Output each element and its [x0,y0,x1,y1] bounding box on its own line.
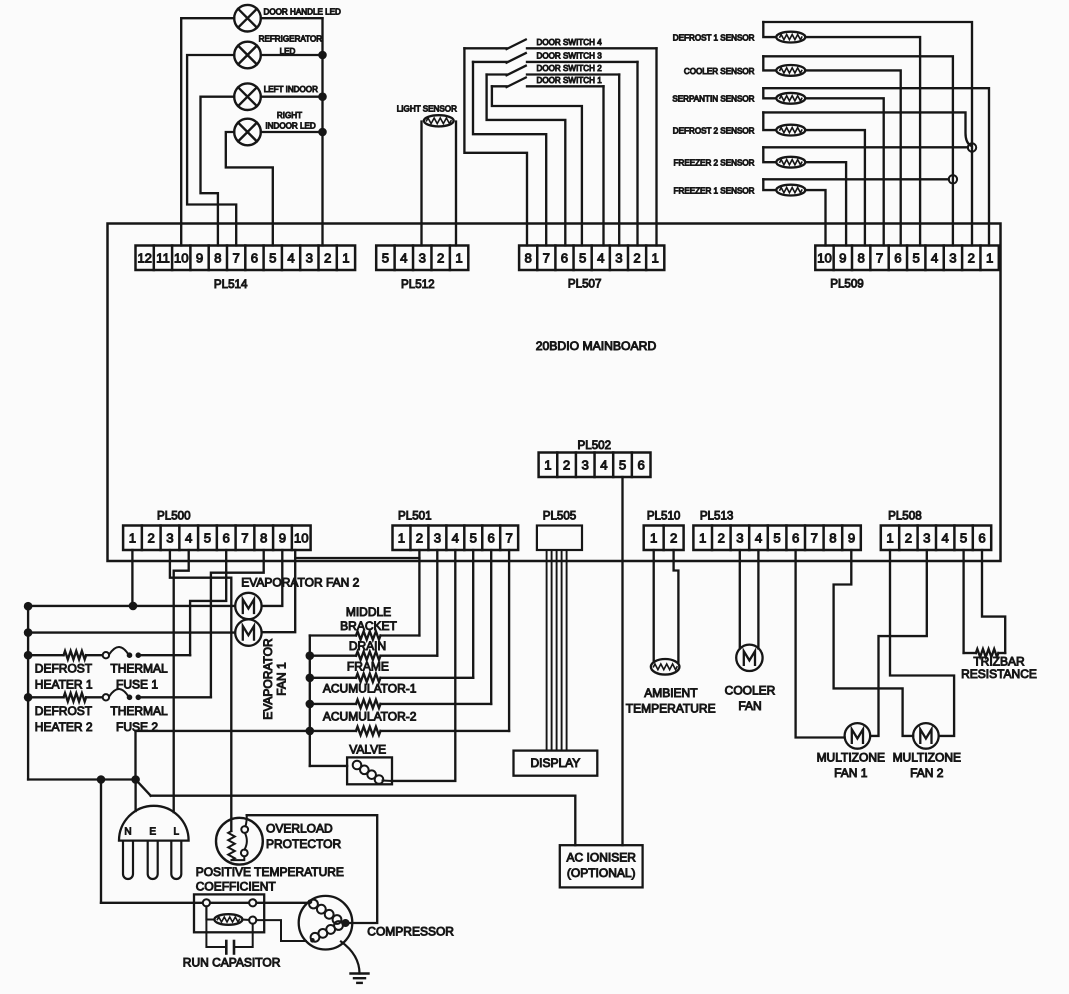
svg-text:1: 1 [886,530,893,545]
svg-text:PL512: PL512 [401,278,435,291]
svg-text:LEFT INDOOR: LEFT INDOOR [264,85,318,94]
svg-text:8: 8 [858,250,865,265]
svg-text:FREEZER 2 SENSOR: FREEZER 2 SENSOR [674,159,755,168]
svg-text:10: 10 [817,250,832,265]
svg-text:4: 4 [452,530,459,545]
svg-text:MULTIZONE: MULTIZONE [893,751,961,765]
svg-text:AC IONISER: AC IONISER [567,851,637,865]
svg-text:DOOR SWITCH 4: DOOR SWITCH 4 [537,38,603,47]
svg-text:HEATER 1: HEATER 1 [35,678,93,692]
svg-text:6: 6 [223,530,230,545]
svg-text:FAN: FAN [738,699,761,713]
svg-text:9: 9 [279,530,286,545]
svg-text:1: 1 [342,250,349,265]
svg-text:1: 1 [986,250,993,265]
svg-text:DOOR SWITCH 1: DOOR SWITCH 1 [537,76,603,85]
svg-text:2: 2 [416,530,423,545]
svg-text:DEFROST: DEFROST [35,662,93,676]
svg-text:MULTIZONE: MULTIZONE [817,751,885,765]
svg-text:1: 1 [650,530,657,545]
svg-text:DOOR SWITCH 2: DOOR SWITCH 2 [537,64,603,73]
svg-text:4: 4 [400,250,407,265]
svg-text:PROTECTOR: PROTECTOR [266,837,341,851]
svg-text:4: 4 [931,250,938,265]
svg-text:DEFROST: DEFROST [35,704,93,718]
svg-text:RESISTANCE: RESISTANCE [961,667,1037,681]
svg-text:FAN 2: FAN 2 [910,766,944,780]
svg-text:DEFROST 2 SENSOR: DEFROST 2 SENSOR [673,127,755,136]
svg-text:PL508: PL508 [888,510,922,523]
svg-text:5: 5 [913,250,920,265]
svg-text:FRAME: FRAME [347,660,389,674]
svg-text:8: 8 [525,250,532,265]
svg-text:9: 9 [848,530,855,545]
svg-text:FUSE 1: FUSE 1 [116,678,158,692]
svg-text:DEFROST 1 SENSOR: DEFROST 1 SENSOR [673,34,755,43]
svg-text:COOLER: COOLER [725,684,776,698]
svg-text:1: 1 [652,250,659,265]
svg-text:7: 7 [241,530,248,545]
svg-text:4: 4 [600,457,607,472]
svg-text:7: 7 [506,530,513,545]
svg-text:4: 4 [287,250,294,265]
svg-text:5: 5 [619,457,626,472]
svg-text:2: 2 [563,457,570,472]
svg-text:DOOR HANDLE LED: DOOR HANDLE LED [264,7,342,16]
svg-text:PL509: PL509 [830,278,864,291]
svg-text:COOLER SENSOR: COOLER SENSOR [684,67,755,76]
svg-text:3: 3 [949,250,956,265]
svg-text:INDOOR LED: INDOOR LED [265,121,316,130]
svg-text:3: 3 [306,250,313,265]
svg-text:THERMAL: THERMAL [110,704,168,718]
svg-text:REFRIGERATOR: REFRIGERATOR [259,35,323,44]
svg-text:7: 7 [543,250,550,265]
svg-text:COMPRESSOR: COMPRESSOR [367,925,454,939]
svg-text:9: 9 [839,250,846,265]
svg-text:PL505: PL505 [543,510,577,523]
svg-text:MIDDLE: MIDDLE [346,605,391,619]
svg-text:1: 1 [544,457,551,472]
svg-text:4: 4 [755,530,762,545]
svg-text:7: 7 [811,530,818,545]
svg-text:5: 5 [269,250,276,265]
svg-text:LED: LED [280,47,296,56]
svg-text:5: 5 [204,530,211,545]
svg-text:6: 6 [561,250,568,265]
svg-text:PL501: PL501 [398,510,432,523]
svg-text:4: 4 [942,530,949,545]
svg-text:5: 5 [960,530,967,545]
svg-text:6: 6 [638,457,645,472]
svg-text:ACUMULATOR-2: ACUMULATOR-2 [323,710,417,724]
svg-text:2: 2 [324,250,331,265]
svg-text:AMBIENT: AMBIENT [644,686,698,700]
svg-text:6: 6 [251,250,258,265]
svg-text:2: 2 [670,530,677,545]
svg-text:9: 9 [196,250,203,265]
svg-text:5: 5 [773,530,780,545]
svg-text:ACUMULATOR-1: ACUMULATOR-1 [323,682,417,696]
svg-text:8: 8 [260,530,267,545]
svg-text:6: 6 [488,530,495,545]
svg-text:PL502: PL502 [578,439,612,452]
svg-text:5: 5 [382,250,389,265]
svg-text:FREEZER 1 SENSOR: FREEZER 1 SENSOR [674,187,755,196]
svg-text:DISPLAY: DISPLAY [530,756,580,770]
svg-text:EVAPORATOR FAN 2: EVAPORATOR FAN 2 [241,576,359,590]
svg-text:FAN 1: FAN 1 [834,766,868,780]
svg-text:N: N [124,827,131,838]
svg-text:DOOR SWITCH 3: DOOR SWITCH 3 [537,52,603,61]
svg-text:PL514: PL514 [214,278,248,291]
svg-text:(OPTIONAL): (OPTIONAL) [567,866,636,880]
svg-text:3: 3 [166,530,173,545]
svg-text:3: 3 [736,530,743,545]
svg-text:DRAIN: DRAIN [349,639,386,653]
svg-text:3: 3 [419,250,426,265]
svg-text:2: 2 [718,530,725,545]
svg-text:HEATER 2: HEATER 2 [35,720,93,734]
svg-text:LIGHT SENSOR: LIGHT SENSOR [397,104,457,113]
svg-text:PL500: PL500 [157,510,191,523]
svg-text:1: 1 [398,530,405,545]
svg-text:TEMPERATURE: TEMPERATURE [626,702,716,716]
svg-text:10: 10 [294,530,309,545]
svg-text:4: 4 [597,250,604,265]
svg-text:20BDIO MAINBOARD: 20BDIO MAINBOARD [536,339,657,353]
svg-text:2: 2 [968,250,975,265]
svg-text:EVAPORATOR: EVAPORATOR [261,638,275,720]
svg-text:2: 2 [633,250,640,265]
svg-text:3: 3 [923,530,930,545]
svg-text:7: 7 [232,250,239,265]
svg-text:POSITIVE TEMPERATURE: POSITIVE TEMPERATURE [196,865,344,879]
svg-text:PL510: PL510 [647,510,681,523]
svg-text:2: 2 [905,530,912,545]
svg-text:1: 1 [699,530,706,545]
svg-text:E: E [149,827,156,838]
svg-text:8: 8 [829,530,836,545]
svg-text:VALVE: VALVE [349,743,386,757]
svg-text:3: 3 [582,457,589,472]
svg-text:L: L [174,827,180,838]
svg-text:10: 10 [174,250,189,265]
svg-text:1: 1 [455,250,462,265]
svg-text:6: 6 [978,530,985,545]
svg-text:2: 2 [437,250,444,265]
svg-text:7: 7 [876,250,883,265]
svg-text:12: 12 [137,250,152,265]
svg-text:SERPANTIN SENSOR: SERPANTIN SENSOR [672,95,754,104]
svg-text:RIGHT: RIGHT [277,111,302,120]
svg-text:8: 8 [214,250,221,265]
svg-text:3: 3 [434,530,441,545]
svg-text:11: 11 [156,250,170,265]
svg-text:6: 6 [792,530,799,545]
svg-text:2: 2 [148,530,155,545]
svg-text:COEFFICIENT: COEFFICIENT [196,880,277,894]
svg-text:RUN CAPASITOR: RUN CAPASITOR [183,956,281,970]
svg-text:PL507: PL507 [568,278,602,291]
svg-text:THERMAL: THERMAL [110,662,168,676]
svg-text:4: 4 [185,530,192,545]
svg-text:OVERLOAD: OVERLOAD [266,822,333,836]
svg-text:5: 5 [470,530,477,545]
svg-text:BRACKET: BRACKET [340,619,397,633]
svg-text:6: 6 [894,250,901,265]
svg-text:5: 5 [579,250,586,265]
svg-text:1: 1 [129,530,136,545]
svg-text:PL513: PL513 [700,510,734,523]
svg-text:FAN 1: FAN 1 [275,662,289,696]
svg-text:3: 3 [615,250,622,265]
